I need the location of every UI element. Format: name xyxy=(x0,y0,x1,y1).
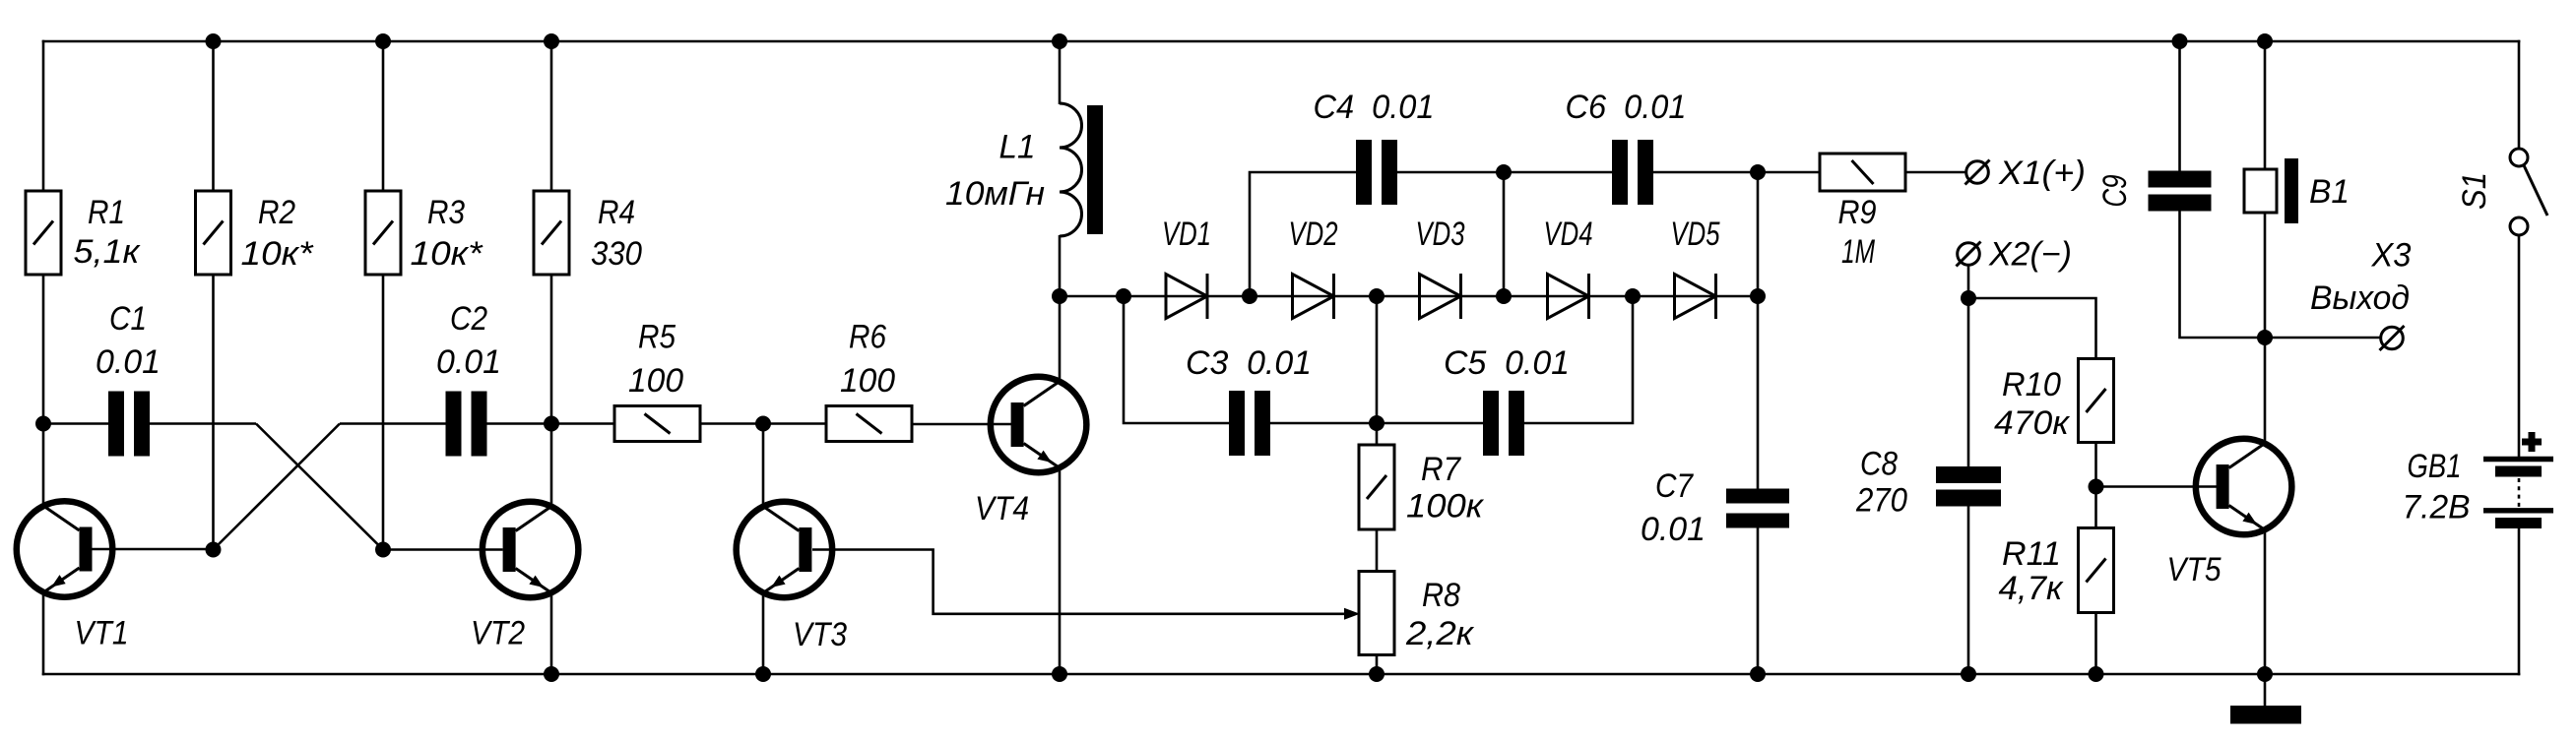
label C2 xyxy=(436,300,501,381)
connector X1 terminal xyxy=(1965,160,1990,185)
svg-text:R1: R1 xyxy=(88,194,125,231)
transistor VT2 xyxy=(483,502,579,598)
capacitor C8 xyxy=(1936,466,2001,507)
label GB1 xyxy=(2403,448,2471,526)
wire X2 stub xyxy=(1967,265,1970,298)
junction dot VT1 base xyxy=(206,542,222,558)
wire node C vertical to C3/C5 row xyxy=(1376,296,1379,445)
resistor R2 xyxy=(196,191,231,275)
svg-text:10мГн: 10мГн xyxy=(945,175,1045,213)
wire R2 bottom to VT1 base node xyxy=(212,274,215,550)
svg-text:S1: S1 xyxy=(2456,172,2493,210)
wire VT3 emitter xyxy=(762,590,765,674)
wire diode row xyxy=(1060,295,1758,298)
wire R11 to bottom rail xyxy=(2094,613,2097,675)
label X3 xyxy=(2310,237,2412,318)
svg-text:VT2: VT2 xyxy=(471,615,525,652)
label C1 xyxy=(96,300,161,381)
wire top rail to C9 xyxy=(2178,41,2181,171)
wire C7 to bottom rail xyxy=(1757,528,1760,675)
battery GB1 cell2 short plate xyxy=(2495,518,2542,528)
junction dot R10/R11/VT5 base xyxy=(2089,479,2104,495)
svg-text:100: 100 xyxy=(628,362,683,400)
svg-text:R6: R6 xyxy=(849,319,886,356)
label R9 xyxy=(1838,194,1877,271)
capacitor C4 xyxy=(1356,140,1397,205)
junction dot X2 node xyxy=(1961,290,1976,306)
transistor VT1 xyxy=(17,501,113,597)
battery GB1 dashed link xyxy=(2518,478,2521,507)
svg-text:10к*: 10к* xyxy=(241,235,315,273)
inductor L1 core bar xyxy=(1087,105,1103,234)
svg-text:10к*: 10к* xyxy=(411,235,484,273)
wire VT1 base lead xyxy=(93,548,214,551)
inductor L1 coil xyxy=(1060,103,1082,236)
label R3 xyxy=(411,194,484,273)
wire X2 node to R10 xyxy=(1968,298,2096,359)
wire C4 to node D column xyxy=(1397,171,1612,174)
junction dots C4/C6 row xyxy=(1496,164,1766,180)
svg-text:R3: R3 xyxy=(427,194,465,231)
svg-text:R2: R2 xyxy=(258,194,295,231)
svg-text:GB1: GB1 xyxy=(2408,448,2462,485)
wire top rail to S1 xyxy=(2518,40,2521,149)
wire R8 to bottom rail xyxy=(1376,655,1379,675)
wire B1 to output node xyxy=(2264,213,2267,338)
wire VT2 collector xyxy=(550,424,553,509)
wire R3 branch top xyxy=(382,41,385,192)
wire VT3 collector xyxy=(762,424,765,509)
svg-text:VT5: VT5 xyxy=(2167,551,2222,588)
battery GB1 cell1 short plate xyxy=(2495,466,2542,477)
svg-text:R9: R9 xyxy=(1838,194,1877,231)
wire node to R5 xyxy=(551,422,614,425)
svg-text:VT3: VT3 xyxy=(793,616,847,653)
wire R9 to X1 xyxy=(1905,171,1966,174)
wire X2 node to C8 xyxy=(1967,298,1970,467)
capacitor C2 xyxy=(446,392,487,457)
svg-text:R8: R8 xyxy=(1422,577,1460,614)
transistor VT5 xyxy=(2196,439,2292,535)
label R1 xyxy=(74,194,142,271)
wire cross-coupling diagonal C1 to VT2 base xyxy=(256,424,383,550)
diode VD5 xyxy=(1675,274,1716,319)
wire bottom ground rail xyxy=(42,673,2521,676)
svg-text:4,7к: 4,7к xyxy=(1999,570,2065,607)
wire left branch R1 top xyxy=(42,40,45,192)
battery GB1 plus sign xyxy=(2522,432,2542,452)
svg-text:C1: C1 xyxy=(109,300,147,338)
svg-text:VD5: VD5 xyxy=(1671,216,1720,253)
switch S1 xyxy=(2510,149,2547,235)
junction dot VT2 base xyxy=(375,542,391,558)
battery GB1 cell2 long plate xyxy=(2483,508,2553,513)
junction dot node R5/R6/VT3 xyxy=(755,416,771,432)
wire C9 down and right to output node xyxy=(2180,211,2266,338)
transistor VT4 xyxy=(991,377,1087,473)
capacitor C9 xyxy=(2149,171,2212,212)
svg-text:VD3: VD3 xyxy=(1416,216,1465,253)
label R2 xyxy=(241,194,315,273)
capacitor C6 xyxy=(1612,140,1653,205)
resistor R9 xyxy=(1820,154,1905,191)
svg-text:R7: R7 xyxy=(1421,451,1461,488)
junction dot C3/C5/R7 xyxy=(1369,415,1385,431)
label R10 xyxy=(1994,366,2071,442)
wire ground stub xyxy=(2264,674,2267,707)
wire top supply rail xyxy=(42,40,2521,43)
resistor R1 xyxy=(26,191,61,275)
junction dot output node xyxy=(2257,330,2273,345)
resistor R11 xyxy=(2079,528,2114,613)
diode VD4 xyxy=(1548,274,1589,319)
junction dots top rail xyxy=(206,33,2274,49)
svg-text:C4 0.01: C4 0.01 xyxy=(1314,89,1435,126)
label R7 xyxy=(1406,451,1485,526)
svg-text:2,2к: 2,2к xyxy=(1405,615,1475,652)
label C8 xyxy=(1855,446,1907,520)
wire C1 right lead xyxy=(150,422,256,425)
svg-text:X2(−): X2(−) xyxy=(1988,236,2072,274)
wire R4 bottom to node at C2/R5 xyxy=(550,274,553,424)
resistor R5 xyxy=(614,406,700,442)
svg-text:VD2: VD2 xyxy=(1289,216,1338,253)
wire VT5 base xyxy=(2096,485,2218,488)
label R11 xyxy=(1999,535,2065,607)
svg-text:Выход: Выход xyxy=(2310,279,2410,317)
junction dots bottom rail xyxy=(544,666,2273,682)
wire R4 branch top xyxy=(550,41,553,192)
label R5 xyxy=(628,319,683,401)
resistor R3 xyxy=(365,191,401,275)
arrowhead R8 wiper xyxy=(1344,608,1360,620)
wire L1 to diode row to VT4 collector xyxy=(1059,235,1062,382)
label L1 xyxy=(945,129,1045,214)
wire C5 up to node E xyxy=(1524,296,1633,423)
svg-text:B1: B1 xyxy=(2309,173,2350,211)
wire VT5 collector xyxy=(2264,338,2267,446)
svg-text:VT1: VT1 xyxy=(75,615,129,652)
capacitor C3 xyxy=(1229,391,1270,456)
junction dot node R4/C2/R5 xyxy=(544,416,559,432)
wire C6 to node F column xyxy=(1653,171,1758,174)
junction dots diode row xyxy=(1052,288,1766,304)
svg-text:1M: 1M xyxy=(1841,233,1875,271)
svg-text:C8: C8 xyxy=(1860,446,1898,483)
resistor R4 xyxy=(534,191,569,275)
svg-text:C9: C9 xyxy=(2096,174,2134,207)
svg-text:100к: 100к xyxy=(1406,488,1485,526)
wire VT4 emitter xyxy=(1059,465,1062,674)
svg-text:X3: X3 xyxy=(2371,237,2412,275)
wire node B up to C4 row xyxy=(1250,172,1356,296)
svg-text:100: 100 xyxy=(840,362,895,400)
wire R5 to node xyxy=(700,422,763,425)
svg-text:C2: C2 xyxy=(450,300,487,338)
svg-text:5,1к: 5,1к xyxy=(74,233,142,271)
svg-text:R5: R5 xyxy=(638,319,676,356)
wire VT3 base to R8 wiper path xyxy=(812,550,1346,614)
connector X2 terminal xyxy=(1957,242,1981,267)
svg-text:C6 0.01: C6 0.01 xyxy=(1566,89,1687,126)
wire cross-coupling diagonal VT1 base to C2 xyxy=(214,424,341,550)
wire C8 to bottom rail xyxy=(1967,507,1970,675)
wire R1 bottom to VT1 collector xyxy=(42,274,45,508)
svg-text:7.2B: 7.2B xyxy=(2403,489,2471,526)
wire node to R6 xyxy=(763,422,826,425)
wire GB1 to bottom rail xyxy=(2518,528,2521,675)
wire R3 bottom to VT2 base node xyxy=(382,274,385,550)
wire output node to X3 xyxy=(2265,337,2381,340)
svg-text:330: 330 xyxy=(591,235,642,273)
svg-text:0.01: 0.01 xyxy=(96,343,161,381)
resistor R10 xyxy=(2079,359,2114,443)
wire C2 left lead xyxy=(340,422,446,425)
label R8 xyxy=(1405,577,1475,652)
svg-text:270: 270 xyxy=(1855,482,1907,520)
svg-text:VT4: VT4 xyxy=(975,490,1029,527)
svg-text:0.01: 0.01 xyxy=(436,343,501,381)
wire VT1 emitter to bottom rail xyxy=(42,590,45,675)
battery GB1 cell1 long plate xyxy=(2483,457,2553,462)
diode VD2 xyxy=(1293,274,1334,319)
capacitor C1 xyxy=(108,392,150,457)
svg-text:470к: 470к xyxy=(1994,404,2071,442)
speaker B1 xyxy=(2244,158,2298,223)
wire S1 to GB1 xyxy=(2518,235,2521,457)
svg-text:0.01: 0.01 xyxy=(1641,511,1706,548)
svg-text:C5 0.01: C5 0.01 xyxy=(1444,344,1570,382)
wire top rail to B1 xyxy=(2264,41,2267,169)
svg-text:R11: R11 xyxy=(2002,535,2061,573)
svg-text:C7: C7 xyxy=(1655,467,1694,505)
svg-text:L1: L1 xyxy=(999,129,1036,166)
wire R7 to R8 xyxy=(1376,529,1379,572)
wire C3 to C5 xyxy=(1270,422,1483,425)
label R4 xyxy=(591,194,642,273)
wire node D vertical xyxy=(1503,172,1506,296)
wire R2 branch top xyxy=(212,41,215,192)
svg-text:R4: R4 xyxy=(598,194,635,231)
capacitor C7 xyxy=(1726,489,1789,528)
ground symbol xyxy=(2230,706,2301,724)
wire node F down to C7 xyxy=(1757,296,1760,489)
resistor R8 potentiometer body xyxy=(1359,572,1394,655)
diode VD3 xyxy=(1420,274,1461,319)
wire top rail to L1 xyxy=(1059,41,1062,104)
svg-text:X1(+): X1(+) xyxy=(1998,155,2086,192)
label C7 xyxy=(1641,467,1706,548)
wire VT2 base lead xyxy=(383,548,503,551)
connector X3 terminal xyxy=(2380,326,2405,350)
capacitor C5 xyxy=(1483,391,1524,456)
svg-text:C3 0.01: C3 0.01 xyxy=(1186,344,1312,382)
resistor R6 xyxy=(826,406,912,442)
wire R6 to VT4 base xyxy=(912,423,1011,426)
junction dot node R1/C1 xyxy=(35,416,51,432)
wire C1 left lead xyxy=(43,422,108,425)
resistor R7 xyxy=(1359,445,1394,529)
wire node A down to C3 row xyxy=(1124,296,1229,423)
transistor VT3 xyxy=(737,502,833,598)
wire VT5 emitter xyxy=(2264,527,2267,674)
wire node F to R9 xyxy=(1758,171,1820,174)
wire C2 right lead xyxy=(487,422,552,425)
wire node F vertical xyxy=(1757,172,1760,296)
svg-text:R10: R10 xyxy=(2002,366,2061,403)
svg-text:VD4: VD4 xyxy=(1544,216,1593,253)
svg-text:VD1: VD1 xyxy=(1162,216,1211,253)
wire R10 to R11 xyxy=(2094,443,2097,528)
diode VD1 xyxy=(1166,274,1207,319)
wire VT2 emitter xyxy=(550,590,553,674)
label R6 xyxy=(840,319,895,401)
